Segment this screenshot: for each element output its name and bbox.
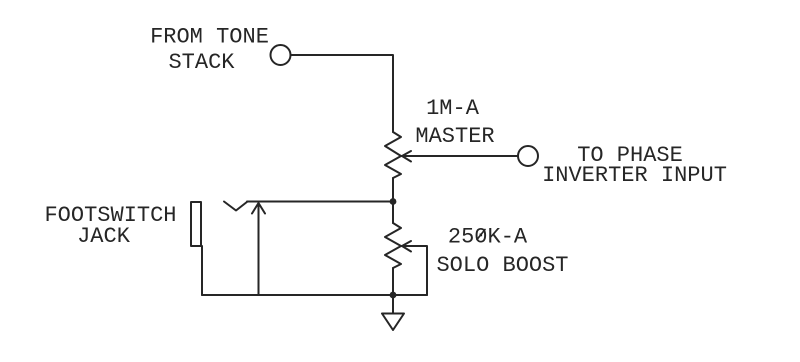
wire: R2 wiper to bottom rail [402,246,427,295]
wire: jack body down to ground rail [201,246,203,295]
svg-text:JACK: JACK [77,224,131,249]
jack body rectangle [191,202,201,246]
svg-text:MASTER: MASTER [415,124,494,149]
svg-text:1M-A: 1M-A [426,96,480,121]
node junction dot B (ground node) [390,292,397,299]
jack shorting arrow (up) [258,204,260,295]
svg-text:SOLO BOOST: SOLO BOOST [436,253,568,278]
label 250K-A SOLO BOOST [436,225,568,279]
terminal circle: to phase inverter input [518,146,538,166]
wiper arrow of R2 [402,241,411,252]
wire: bottom ground rail [202,294,427,296]
terminal circle: from tone stack [271,45,291,65]
potentiometer R2 250K-A SOLO BOOST (zigzag body) [385,223,401,268]
potentiometer R1 1M-A MASTER (zigzag body) [385,132,401,178]
wire: ground stub [392,295,394,313]
wire: jack tip contact to junction A [247,201,393,203]
wire: R2 bottom to ground junction [392,268,394,295]
label 1M-A MASTER [415,96,494,149]
label TO PHASE INVERTER INPUT [542,143,727,188]
svg-text:STACK: STACK [168,50,235,75]
wire: R1 wiper to phase inverter terminal [402,155,518,157]
wire: tone stack terminal to top of master pot [291,55,393,132]
label FOOTSWITCH JACK [44,203,176,249]
ground symbol [382,314,404,331]
label FROM TONE STACK [150,25,269,76]
wire: R1 bottom to R2 top [392,178,394,223]
node junction dot A [390,198,397,205]
svg-text:250K-A: 250K-A [448,225,528,250]
jack tip contact (V) [224,202,248,211]
svg-text:FROM TONE: FROM TONE [150,25,269,50]
svg-text:INVERTER INPUT: INVERTER INPUT [542,163,727,188]
slash of zero in 250K-A [477,230,485,240]
wiper arrow of R1 [402,151,411,162]
